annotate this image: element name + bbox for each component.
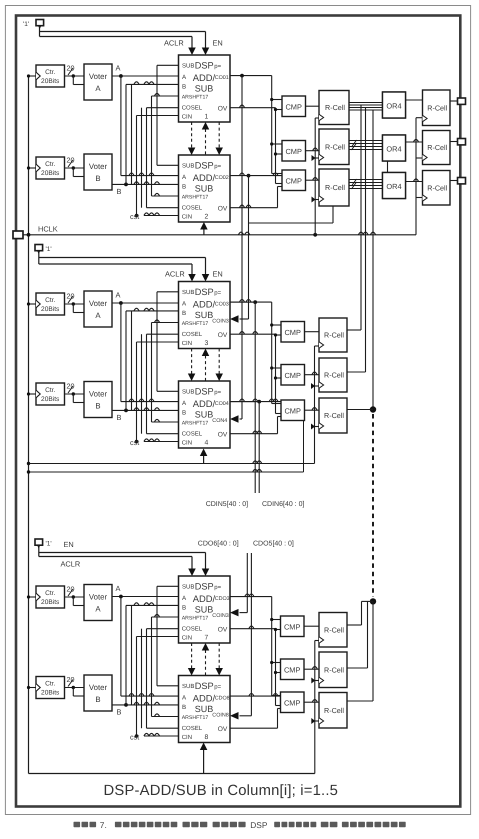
svg-text:R-Cell: R-Cell bbox=[324, 331, 344, 340]
wire HCLK left rail bbox=[28, 76, 30, 774]
crossover hops clock rails (top) bbox=[413, 139, 418, 142]
svg-text:ACLR: ACLR bbox=[165, 270, 185, 279]
wire mesh control inputs (bottom) bbox=[131, 605, 133, 705]
svg-text:CMP: CMP bbox=[284, 622, 300, 631]
wire net A (bottom) bbox=[112, 596, 179, 598]
wire mesh control inputs (top) bbox=[131, 84, 133, 184]
svg-text:CMP: CMP bbox=[284, 698, 300, 707]
wire CMP2 to R-Cell2 (top) bbox=[306, 150, 320, 152]
svg-text:OR4: OR4 bbox=[386, 145, 401, 154]
svg-text:CDO8: CDO8 bbox=[215, 696, 230, 702]
svg-text:DSP: DSP bbox=[195, 582, 214, 592]
wire cst (top) bbox=[144, 215, 179, 217]
svg-text:DSP: DSP bbox=[250, 820, 268, 830]
counter Ctr 20Bits B (middle) bbox=[36, 383, 65, 405]
output pad square 3 (top) bbox=[458, 178, 466, 184]
svg-text:OV: OV bbox=[218, 332, 228, 339]
svg-text:CMP: CMP bbox=[284, 406, 300, 415]
second return wire (middle) bbox=[29, 471, 304, 473]
svg-text:R-Cell: R-Cell bbox=[325, 183, 345, 192]
svg-text:ARSHFT17: ARSHFT17 bbox=[182, 715, 209, 721]
voter Voter B (bottom) bbox=[84, 675, 112, 711]
wire CO out block2 (middle) bbox=[230, 401, 281, 403]
svg-text:R-Cell: R-Cell bbox=[325, 103, 345, 112]
wire '1' to EN (top) bbox=[39, 25, 41, 37]
svg-text:Ctr.: Ctr. bbox=[45, 161, 55, 168]
bus R-Cell1 to OR4-1 (top) bbox=[349, 102, 383, 104]
crossover hops on HCLK bbox=[238, 232, 243, 235]
wire rail to Ctr B (top) bbox=[29, 167, 37, 169]
svg-text:CDO3: CDO3 bbox=[215, 596, 230, 602]
svg-text:CO01: CO01 bbox=[215, 75, 229, 81]
wire stub CMP2 in1 (bottom) bbox=[272, 662, 281, 664]
wire net B (bottom) bbox=[112, 704, 179, 706]
comparator CMP2 (middle) bbox=[281, 365, 305, 386]
wire stub CMP3 in2 (middle) bbox=[276, 413, 282, 415]
svg-text:B: B bbox=[182, 310, 186, 317]
svg-text:COIN3: COIN3 bbox=[212, 319, 228, 325]
svg-text:B: B bbox=[95, 695, 100, 704]
cascade vertical CO02 down bbox=[248, 176, 250, 319]
comparator CMP1 (top) bbox=[282, 96, 306, 117]
register R-Cell1 (top) bbox=[319, 91, 349, 125]
svg-text:COSEL: COSEL bbox=[182, 725, 203, 732]
register R-Cell2 (middle) bbox=[319, 358, 347, 392]
svg-text:CDIN5[40 : 0]: CDIN5[40 : 0] bbox=[206, 500, 248, 508]
register R-Cell1 (bottom) bbox=[319, 613, 347, 648]
wire CMP3 to R-Cell3 (middle) bbox=[305, 409, 320, 411]
comparator CMP1 (middle) bbox=[281, 322, 305, 343]
wire Ctr A to Voter A (middle) bbox=[65, 303, 85, 305]
svg-text:SUB: SUB bbox=[182, 162, 194, 169]
svg-text:OV: OV bbox=[218, 627, 228, 634]
svg-text:Ctr.: Ctr. bbox=[45, 69, 55, 76]
svg-text:CMP: CMP bbox=[284, 371, 300, 380]
svg-text:EN: EN bbox=[213, 270, 223, 279]
svg-text:R-Cell: R-Cell bbox=[427, 103, 447, 112]
DSP block U2 (top) bbox=[179, 155, 231, 222]
wires R-Cell outputs to pads (top) bbox=[450, 100, 458, 102]
comparator CMP2 (bottom) bbox=[281, 659, 305, 680]
svg-text:SUB: SUB bbox=[182, 683, 194, 690]
svg-text:DSP: DSP bbox=[195, 387, 214, 397]
svg-text:R-Cell: R-Cell bbox=[324, 706, 344, 715]
svg-text:SUB: SUB bbox=[195, 409, 214, 419]
svg-text:CMP: CMP bbox=[284, 665, 300, 674]
wire DSP8 CIN from bottom return bbox=[203, 750, 205, 774]
cascade pair from CDO labels bbox=[246, 553, 248, 613]
bus R-Cell2 to OR4-2 (top) bbox=[349, 140, 383, 142]
svg-text:DSP: DSP bbox=[195, 61, 214, 71]
svg-text:CDO6[40 : 0]: CDO6[40 : 0] bbox=[198, 540, 239, 548]
svg-text:SUB: SUB bbox=[182, 388, 194, 395]
svg-text:R-Cell: R-Cell bbox=[324, 625, 344, 634]
svg-text:A: A bbox=[116, 64, 121, 73]
register R-Cell5 output stage (top) bbox=[423, 131, 451, 165]
wire CO out block1 (middle) bbox=[230, 301, 272, 303]
svg-text:SUB: SUB bbox=[182, 289, 194, 296]
svg-text:7.: 7. bbox=[100, 820, 107, 830]
svg-text:'1': '1' bbox=[23, 21, 29, 28]
const '1' symbol (top) bbox=[36, 20, 44, 26]
wire Ctr A to Voter A (top) bbox=[65, 75, 85, 77]
svg-text:A: A bbox=[95, 311, 101, 320]
svg-text:B: B bbox=[117, 187, 122, 196]
junction HCLK-rail bbox=[27, 233, 31, 237]
svg-text:B: B bbox=[182, 409, 186, 416]
register R-Cell3 (bottom) bbox=[319, 693, 347, 729]
bus R-Cell3 to OR4-3 (top) bbox=[349, 179, 383, 181]
comparator CMP3 (bottom) bbox=[281, 692, 305, 713]
wire cst (middle) bbox=[144, 441, 179, 443]
wire HCLK horizontal bbox=[23, 234, 416, 236]
svg-text:cst: cst bbox=[130, 212, 139, 221]
svg-text:A: A bbox=[95, 84, 101, 93]
svg-text:SUB: SUB bbox=[182, 583, 194, 590]
wire stub CMP2 in1 (middle) bbox=[272, 367, 281, 369]
svg-text:CIN: CIN bbox=[182, 439, 192, 446]
wire R-Cell3 lower loop (top) bbox=[249, 222, 334, 224]
register R-Cell6 output stage (top) bbox=[423, 171, 451, 206]
svg-text:'1': '1' bbox=[46, 540, 52, 547]
svg-text:1: 1 bbox=[205, 113, 209, 120]
clock return wire (middle) bbox=[29, 463, 315, 465]
wire net B (top) bbox=[112, 183, 179, 185]
wire OV out block1 (middle) bbox=[230, 333, 276, 335]
wire CO out block1 (top) bbox=[230, 75, 272, 77]
svg-text:CIN: CIN bbox=[182, 634, 192, 641]
register R-Cell2 (top) bbox=[319, 129, 349, 165]
wire '1' to EN (middle) bbox=[38, 251, 40, 265]
wire OV out block2 (top) bbox=[230, 207, 278, 209]
svg-text:SUB: SUB bbox=[195, 183, 214, 193]
comparator CMP1 (bottom) bbox=[281, 616, 305, 637]
wire stub CMP3 in1 (top) bbox=[272, 173, 282, 175]
wire rail to Ctr B (middle) bbox=[29, 393, 37, 395]
svg-text:CO04: CO04 bbox=[215, 401, 229, 407]
svg-text:Ctr.: Ctr. bbox=[45, 681, 55, 688]
svg-text:ARSHFT17: ARSHFT17 bbox=[182, 95, 209, 101]
or gate OR4-3 (top) bbox=[383, 173, 406, 199]
register R-Cell3 (middle) bbox=[319, 398, 347, 433]
svg-text:B: B bbox=[182, 704, 186, 711]
const '1' symbol (middle) bbox=[35, 245, 43, 251]
svg-text:20Bits: 20Bits bbox=[41, 170, 60, 177]
svg-text:DSP: DSP bbox=[195, 161, 214, 171]
svg-text:COIN8: COIN8 bbox=[212, 713, 228, 719]
clock rail R-Cell column1 (top) bbox=[314, 118, 316, 235]
svg-text:OV: OV bbox=[218, 206, 228, 213]
wire Ctr B to Voter B (top) bbox=[65, 167, 85, 169]
COIN3 arrow into DSP3 bbox=[240, 318, 249, 320]
svg-text:CIN: CIN bbox=[182, 340, 192, 347]
svg-text:p=: p= bbox=[214, 390, 221, 396]
svg-text:OV: OV bbox=[218, 432, 228, 439]
dashed cascade arrows U7-U8 (bottom) bbox=[191, 643, 193, 669]
svg-text:Voter: Voter bbox=[89, 162, 108, 171]
svg-text:B: B bbox=[182, 83, 186, 90]
HCLK pad square bbox=[13, 231, 23, 239]
register R-Cell3 (top) bbox=[319, 169, 349, 206]
svg-text:SUB: SUB bbox=[195, 604, 214, 614]
svg-text:2: 2 bbox=[205, 213, 209, 220]
svg-text:ARSHFT17: ARSHFT17 bbox=[182, 321, 209, 327]
svg-text:3: 3 bbox=[205, 340, 209, 347]
clock rail R-Cell column (bottom) bbox=[314, 641, 316, 774]
wire net B (middle) bbox=[112, 409, 179, 411]
svg-text:R-Cell: R-Cell bbox=[325, 142, 345, 151]
svg-text:SUB: SUB bbox=[195, 704, 214, 714]
svg-text:7: 7 bbox=[205, 634, 209, 641]
svg-text:ADD/: ADD/ bbox=[193, 72, 216, 83]
dashed cascade arrows U3-U4 (middle) bbox=[191, 349, 193, 375]
svg-text:COSEL: COSEL bbox=[182, 625, 203, 632]
caption blocks (Korean text) bbox=[74, 822, 81, 827]
wire CMP1 to R-Cell1 (bottom) bbox=[304, 625, 319, 627]
wire rail to Ctr A (top) bbox=[29, 75, 37, 77]
wire CMP2 to R-Cell2 (bottom) bbox=[304, 668, 319, 670]
wire net A (middle) bbox=[112, 302, 179, 304]
wire chain fan to bottom R-Cells bbox=[362, 600, 374, 602]
svg-text:Voter: Voter bbox=[89, 299, 108, 308]
svg-text:R-Cell: R-Cell bbox=[324, 665, 344, 674]
svg-text:'1': '1' bbox=[46, 246, 52, 253]
svg-text:p=: p= bbox=[214, 164, 221, 170]
wire below OR4 (top) bbox=[387, 161, 389, 173]
wire Ctr B to Voter B (middle) bbox=[65, 393, 85, 395]
svg-text:DSP: DSP bbox=[195, 681, 214, 691]
svg-text:ACLR: ACLR bbox=[164, 39, 184, 48]
or gate OR4-2 (top) bbox=[383, 135, 406, 161]
wire stub CMP1 in2 (top) bbox=[276, 109, 283, 111]
svg-text:CO02: CO02 bbox=[215, 175, 229, 181]
svg-text:B: B bbox=[95, 174, 100, 183]
wire stub CMP1 in1 (bottom) bbox=[272, 619, 281, 621]
wire cst (bottom) bbox=[144, 735, 179, 737]
cascade pair to CDIN labels bbox=[254, 302, 256, 493]
svg-text:B: B bbox=[95, 402, 100, 411]
svg-text:Ctr.: Ctr. bbox=[45, 590, 55, 597]
crossover hops on return wires (middle) bbox=[253, 461, 258, 464]
wire CO out block1 (bottom) bbox=[230, 596, 272, 598]
svg-text:OR4: OR4 bbox=[386, 182, 401, 191]
wire CMP3 to R-Cell3 (top) bbox=[306, 179, 320, 181]
svg-text:Voter: Voter bbox=[89, 683, 108, 692]
or gate OR4-1 (top) bbox=[383, 92, 406, 118]
clock rail R-Cell column2 (top) bbox=[415, 118, 417, 235]
wire '1' to ACLR (middle) bbox=[39, 263, 192, 265]
svg-text:p=: p= bbox=[214, 64, 221, 70]
svg-text:R-Cell: R-Cell bbox=[324, 411, 344, 420]
wire stub CMP3 in2 (bottom) bbox=[276, 705, 281, 707]
wire CMP1 to R-Cell1 (top) bbox=[306, 105, 320, 107]
svg-text:R-Cell: R-Cell bbox=[324, 371, 344, 380]
svg-text:A: A bbox=[95, 605, 101, 614]
junction HCLK-clkrail1 bbox=[313, 233, 317, 237]
svg-text:SUB: SUB bbox=[182, 62, 194, 69]
svg-text:ADD/: ADD/ bbox=[193, 692, 216, 703]
voter Voter A (top) bbox=[84, 64, 112, 100]
svg-text:COSEL: COSEL bbox=[182, 104, 203, 111]
wire CO out block2 (bottom) bbox=[230, 695, 281, 697]
svg-text:CDIN6[40 : 0]: CDIN6[40 : 0] bbox=[262, 500, 304, 508]
column chain dot and dashed continuation bbox=[370, 406, 376, 412]
svg-text:COSEL: COSEL bbox=[182, 204, 203, 211]
wire stub CMP2 in2 (middle) bbox=[276, 377, 282, 379]
svg-text:B: B bbox=[117, 413, 122, 422]
wire stub CMP2 in1 (top) bbox=[272, 143, 282, 145]
svg-text:8: 8 bbox=[205, 734, 209, 741]
wire rail to Ctr B (bottom) bbox=[29, 687, 37, 689]
svg-text:p=: p= bbox=[214, 585, 221, 591]
crossover hops clock rail (bottom) bbox=[312, 667, 317, 670]
cascade vertical CO01 down bbox=[241, 76, 243, 419]
DSP block U7 (bottom) bbox=[179, 576, 231, 643]
svg-text:SUB: SUB bbox=[195, 83, 214, 93]
wire stub CMP3 in1 (middle) bbox=[272, 403, 281, 405]
wire long vertical v1 (OR feedback) bbox=[360, 105, 362, 330]
svg-text:DSP-ADD/SUB in Column[i]; i=1.: DSP-ADD/SUB in Column[i]; i=1..5 bbox=[104, 783, 339, 799]
wire stub CMP3 in1 (bottom) bbox=[272, 695, 281, 697]
svg-text:EN: EN bbox=[64, 540, 74, 549]
svg-text:OV: OV bbox=[218, 106, 228, 113]
svg-text:COSEL: COSEL bbox=[182, 430, 203, 437]
COIN4 arrow into DSP4 bbox=[240, 418, 243, 420]
counter Ctr 20Bits A (bottom) bbox=[36, 586, 65, 608]
svg-text:CO03: CO03 bbox=[215, 302, 229, 308]
wire OV out block2 (bottom) bbox=[230, 727, 278, 729]
wire stub CMP1 in2 (bottom) bbox=[276, 629, 281, 631]
wire '1' to EN (bottom) bbox=[38, 545, 40, 557]
wire long vertical v2 (OR feedback) bbox=[365, 108, 367, 373]
wire OV out block2 (middle) bbox=[230, 433, 278, 435]
wires R-Cell outputs feeding up (middle) bbox=[347, 329, 361, 331]
wire DSP4 CIN from return (middle) bbox=[203, 456, 205, 464]
wires OR4 outputs to R-Cell output stage (top) bbox=[406, 99, 423, 101]
wire stub CMP1 in1 (middle) bbox=[272, 324, 281, 326]
bottom return wire bbox=[29, 773, 315, 775]
crossover hops clock rail (middle) bbox=[312, 372, 317, 375]
or gate OR4-1 (top) bbox=[383, 92, 406, 118]
svg-text:CON4: CON4 bbox=[212, 418, 227, 424]
wire stub CMP1 in1 (top) bbox=[272, 99, 282, 101]
wire stub CMP2 in2 (top) bbox=[276, 153, 283, 155]
svg-text:SUB: SUB bbox=[195, 310, 214, 320]
wire CO out block2 (top) bbox=[230, 175, 282, 177]
voter Voter B (top) bbox=[84, 154, 112, 190]
wire CMP1 to R-Cell1 (middle) bbox=[305, 331, 320, 333]
DSP block U1 (top) bbox=[179, 55, 231, 122]
DSP block U4 (middle) bbox=[179, 381, 231, 448]
wire stub CMP1 in2 (middle) bbox=[276, 334, 282, 336]
svg-text:20Bits: 20Bits bbox=[41, 78, 60, 85]
counter Ctr 20Bits A (middle) bbox=[36, 293, 65, 315]
DSP block U8 (bottom) bbox=[179, 676, 231, 743]
svg-text:OR4: OR4 bbox=[386, 102, 401, 111]
svg-text:COSEL: COSEL bbox=[182, 331, 203, 338]
svg-text:COIN3: COIN3 bbox=[212, 613, 228, 619]
svg-text:ARSHFT17: ARSHFT17 bbox=[182, 616, 209, 622]
wire Ctr B to Voter B (bottom) bbox=[65, 687, 85, 689]
clock rail R-Cell column (middle) bbox=[314, 346, 316, 464]
dashed cascade arrows U1-U2 (top) bbox=[191, 122, 193, 148]
voter Voter B (middle) bbox=[84, 382, 112, 418]
svg-text:CDO5[40 : 0]: CDO5[40 : 0] bbox=[253, 540, 294, 548]
wire '1' to ACLR (top) bbox=[40, 36, 193, 38]
register R-Cell1 (middle) bbox=[319, 318, 347, 352]
output pad square 2 (top) bbox=[458, 139, 466, 145]
svg-text:CMP: CMP bbox=[285, 176, 301, 185]
wire OV out block1 (top) bbox=[230, 107, 276, 109]
svg-text:ACLR: ACLR bbox=[61, 560, 81, 569]
voter Voter A (bottom) bbox=[84, 585, 112, 621]
svg-text:ADD/: ADD/ bbox=[193, 298, 216, 309]
svg-text:cst: cst bbox=[130, 438, 139, 447]
wire long vertical v3 (OR feedback) bbox=[372, 110, 374, 410]
comparator CMP3 (top) bbox=[282, 170, 306, 191]
svg-text:Voter: Voter bbox=[89, 72, 108, 81]
wire stub CMP2 in2 (bottom) bbox=[276, 672, 281, 674]
svg-text:Voter: Voter bbox=[89, 593, 108, 602]
svg-text:CMP: CMP bbox=[285, 147, 301, 156]
wire mesh control inputs (middle) bbox=[131, 311, 133, 411]
svg-text:CMP: CMP bbox=[284, 328, 300, 337]
svg-text:p=: p= bbox=[214, 291, 221, 297]
wire stub CMP3 in2 (top) bbox=[276, 183, 283, 185]
svg-text:Voter: Voter bbox=[89, 390, 108, 399]
svg-text:DSP: DSP bbox=[195, 287, 214, 297]
svg-text:R-Cell: R-Cell bbox=[427, 183, 447, 192]
svg-text:ADD/: ADD/ bbox=[193, 593, 216, 604]
svg-text:R-Cell: R-Cell bbox=[427, 143, 447, 152]
const '1' symbol (bottom) bbox=[35, 539, 43, 545]
svg-text:cst: cst bbox=[130, 733, 139, 742]
svg-text:B: B bbox=[182, 604, 186, 611]
svg-text:ARSHFT17: ARSHFT17 bbox=[182, 195, 209, 201]
svg-text:CIN: CIN bbox=[182, 113, 192, 120]
register R-Cell4 output stage (top) bbox=[423, 90, 451, 126]
svg-text:CMP: CMP bbox=[285, 102, 301, 111]
comparator CMP2 (top) bbox=[282, 141, 306, 162]
svg-text:HCLK: HCLK bbox=[38, 225, 58, 234]
wire Ctr A to Voter A (bottom) bbox=[65, 596, 85, 598]
output pad square 1 (top) bbox=[458, 98, 466, 104]
wire OV out block1 (bottom) bbox=[230, 628, 276, 630]
wire CMP2 to R-Cell2 (middle) bbox=[305, 374, 320, 376]
svg-text:Ctr.: Ctr. bbox=[45, 297, 55, 304]
svg-text:ADD/: ADD/ bbox=[193, 398, 216, 409]
svg-text:EN: EN bbox=[213, 39, 223, 48]
svg-text:p=: p= bbox=[214, 685, 221, 691]
counter Ctr 20Bits A (top) bbox=[36, 65, 65, 87]
wire '1' to ACLR (bottom) bbox=[39, 556, 192, 558]
svg-text:ADD/: ADD/ bbox=[193, 172, 216, 183]
svg-text:A: A bbox=[116, 291, 121, 300]
comparator CMP3 (middle) bbox=[281, 400, 305, 421]
svg-text:20Bits: 20Bits bbox=[41, 690, 60, 697]
wire rail to Ctr A (middle) bbox=[29, 303, 37, 305]
or gate OR4-3 (top) bbox=[383, 173, 406, 199]
DSP block U3 (middle) bbox=[179, 282, 231, 349]
svg-text:20Bits: 20Bits bbox=[41, 599, 60, 606]
svg-text:20Bits: 20Bits bbox=[41, 396, 60, 403]
svg-text:Ctr.: Ctr. bbox=[45, 387, 55, 394]
wire net A (top) bbox=[112, 75, 179, 77]
svg-text:CIN: CIN bbox=[182, 734, 192, 741]
counter Ctr 20Bits B (bottom) bbox=[36, 677, 65, 699]
svg-text:B: B bbox=[182, 183, 186, 190]
register R-Cell2 (bottom) bbox=[319, 652, 347, 688]
